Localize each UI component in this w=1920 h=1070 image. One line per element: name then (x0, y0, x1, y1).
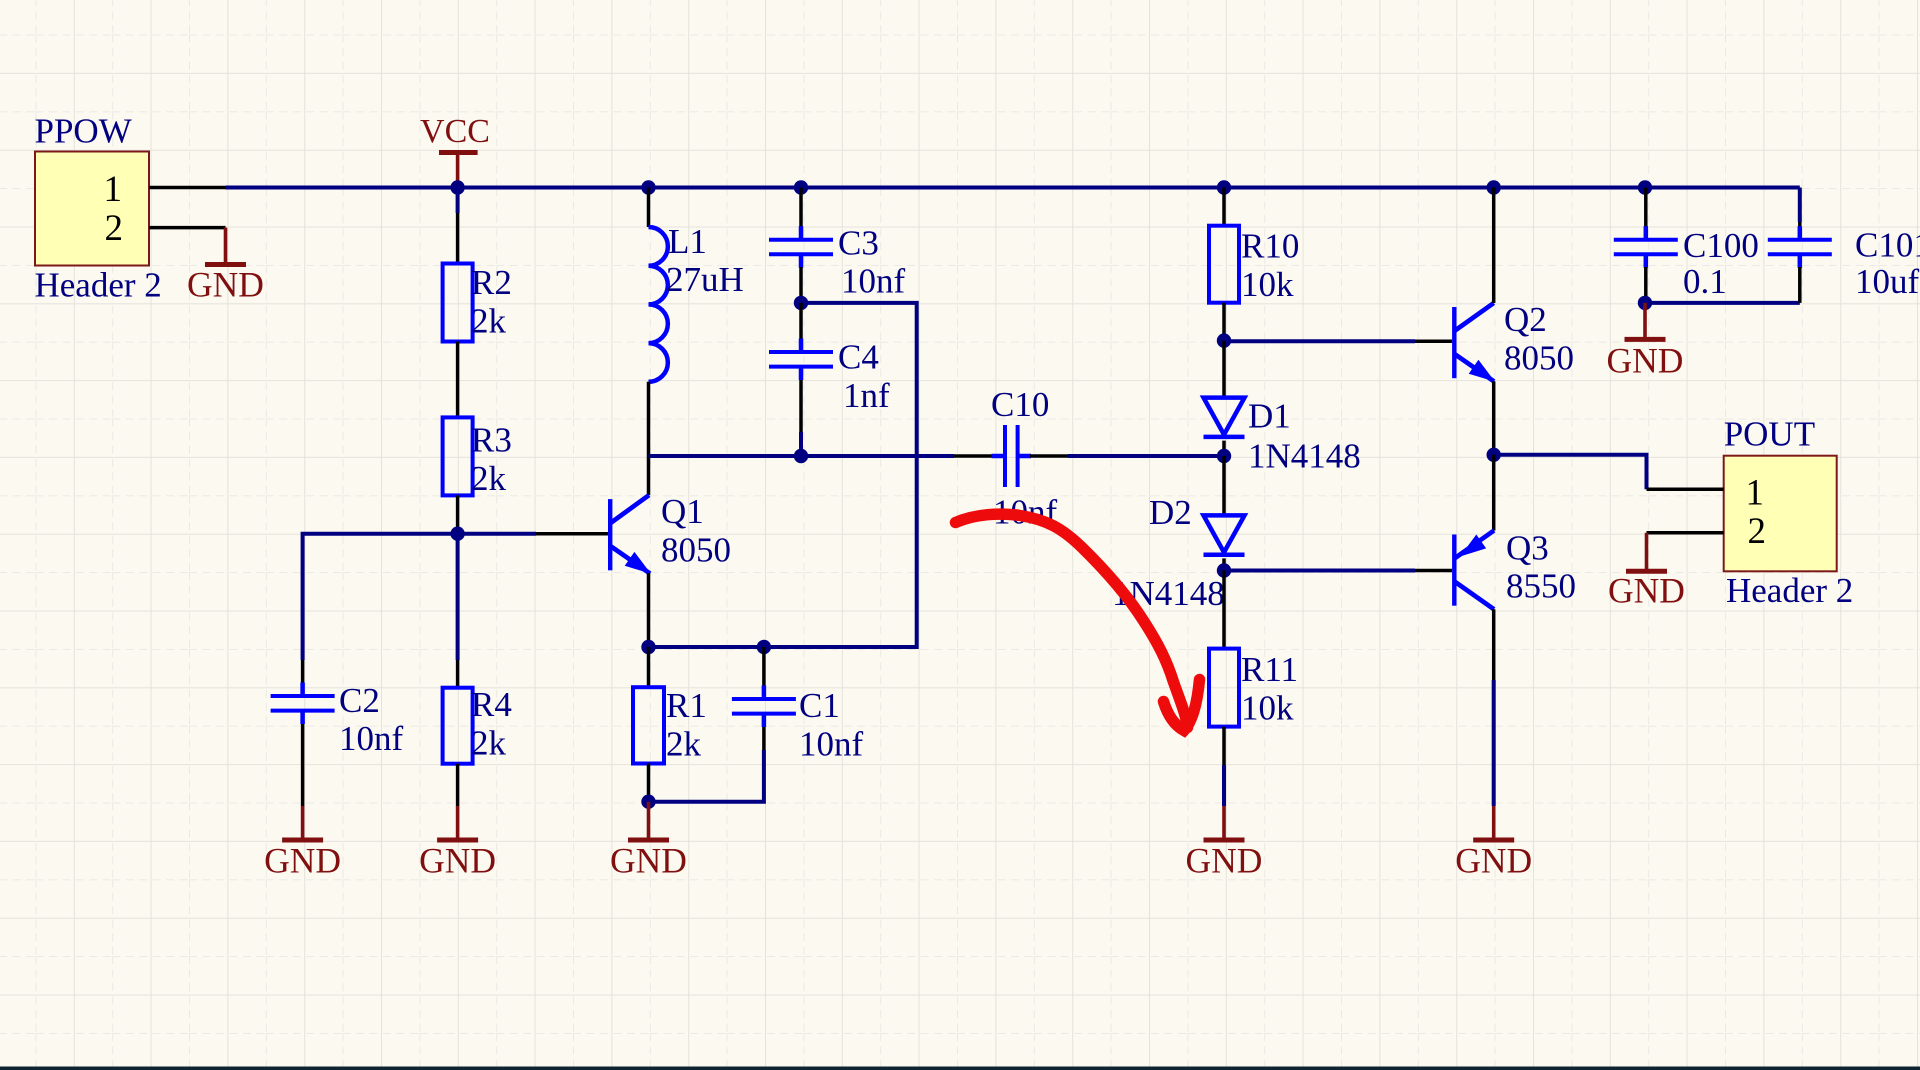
svg-text:2k: 2k (666, 724, 702, 763)
wire C1 top pin (762, 647, 766, 686)
svg-text:R1: R1 (666, 686, 707, 725)
wire VCC to L1 (647, 188, 651, 228)
resistor R10 (1209, 226, 1299, 304)
node A junction dot (450, 527, 464, 541)
sheet border bottom edge (0, 1067, 1920, 1070)
svg-text:GND: GND (1186, 841, 1263, 881)
wire node F to Q3 base (1224, 569, 1452, 573)
node H junction dot (1638, 296, 1652, 310)
capacitor C100 (1614, 226, 1759, 301)
svg-text:2k: 2k (471, 302, 507, 341)
svg-text:Q1: Q1 (661, 492, 704, 531)
wire C101 top drop (1798, 188, 1802, 223)
node G junction dot (1487, 448, 1501, 462)
svg-text:1: 1 (1746, 472, 1765, 513)
svg-text:2k: 2k (471, 723, 507, 762)
red freehand annotation arrow (956, 514, 1200, 730)
svg-text:POUT: POUT (1724, 414, 1815, 453)
svg-text:10k: 10k (1241, 265, 1294, 304)
wire R4 to ground (456, 764, 460, 806)
ground symbol below C100 (1607, 303, 1684, 381)
ground symbol below R4 (419, 806, 496, 881)
wire Q1 emitter down (647, 573, 651, 647)
svg-text:D2: D2 (1149, 493, 1192, 532)
svg-text:GND: GND (610, 841, 687, 881)
wire D1 cathode to node D (1222, 441, 1226, 456)
node Q1-emitter junction dot (641, 640, 655, 654)
svg-text:2: 2 (105, 208, 124, 249)
wire Q2 emitter to node G (1492, 381, 1496, 454)
svg-text:Q2: Q2 (1504, 300, 1547, 339)
wire node B to feedback column (649, 303, 917, 647)
svg-text:8050: 8050 (1504, 339, 1574, 378)
svg-text:R4: R4 (471, 685, 512, 724)
wire node H to C101 bottom (1645, 301, 1800, 305)
svg-text:C10: C10 (991, 385, 1049, 424)
wire VCC to R2 (456, 188, 460, 264)
capacitor C10 (991, 385, 1058, 532)
ground symbol below R1 (610, 802, 687, 881)
svg-text:C100: C100 (1683, 226, 1759, 265)
wire C10 to node D (1068, 454, 1224, 458)
wire R1 top pin (647, 647, 651, 687)
svg-text:1nf: 1nf (843, 376, 890, 415)
inductor L1 (649, 222, 744, 382)
svg-text:D1: D1 (1248, 397, 1291, 436)
svg-text:GND: GND (264, 841, 341, 881)
wire node D to D2 anode (1222, 456, 1226, 515)
PPOW pin 1 (104, 169, 226, 210)
wire R11 to ground (1222, 727, 1226, 806)
wire L1 to Q1 collector (647, 382, 651, 495)
svg-text:8550: 8550 (1506, 567, 1576, 606)
wire C1 bottom to node I (649, 727, 764, 802)
svg-text:1N4148: 1N4148 (1248, 436, 1361, 475)
ground symbol at POUT pin 2 (1608, 533, 1685, 611)
node VCC rail junctions (450, 180, 1652, 194)
diode D1 (1N4148) (1204, 397, 1361, 476)
POUT pin 2 (1647, 511, 1767, 552)
wire Q3 collector down (1492, 609, 1496, 806)
svg-text:10nf: 10nf (339, 719, 404, 758)
wire C4 to node C (799, 380, 803, 456)
node B junction dot (794, 296, 808, 310)
wire node E to D1 anode (1222, 341, 1226, 398)
connector POUT (Header 2) body (1724, 414, 1854, 610)
node C junction dot (794, 449, 808, 463)
wire C2 top pin (301, 660, 305, 683)
resistor R11 (1209, 649, 1298, 728)
wire node G to Q3 emitter (1492, 455, 1496, 531)
wire C10 right pin (1030, 454, 1068, 458)
svg-text:0.1: 0.1 (1683, 262, 1727, 301)
ground symbol below C2 (264, 806, 341, 881)
svg-text:VCC: VCC (420, 113, 490, 150)
svg-text:R3: R3 (471, 421, 512, 460)
wire VCC to C3 (799, 188, 803, 228)
wire node E to Q2 base (1224, 339, 1452, 343)
svg-text:10k: 10k (1241, 688, 1294, 727)
svg-text:C3: C3 (838, 224, 879, 263)
svg-text:1: 1 (104, 169, 123, 210)
svg-text:C1: C1 (799, 686, 840, 725)
transistor Q3 (PNP 8550) (1452, 528, 1576, 609)
wire R2 to R3 (456, 342, 460, 418)
node I junction dot (641, 795, 655, 809)
capacitor C1 (732, 686, 864, 764)
svg-text:C2: C2 (339, 681, 380, 720)
capacitor C2 (271, 681, 404, 758)
wire Q2 collector to VCC (1492, 188, 1496, 304)
ground symbol below R11 (1186, 806, 1263, 881)
svg-text:8050: 8050 (661, 530, 731, 569)
svg-text:GND: GND (187, 265, 264, 305)
wire node G to POUT pin 1 (1494, 455, 1647, 489)
transistor Q1 (NPN 8050) (608, 492, 731, 574)
wire VCC to C100 (1644, 188, 1648, 228)
svg-text:PPOW: PPOW (35, 111, 132, 150)
wire VCC to R10 (1222, 188, 1226, 226)
node F junction dot (1217, 563, 1231, 577)
svg-text:R11: R11 (1241, 650, 1298, 689)
capacitor C3 (769, 224, 906, 301)
svg-text:2: 2 (1748, 511, 1767, 552)
wire D2 cathode to node F (1222, 558, 1226, 570)
connector PPOW (Header 2) body (35, 111, 162, 304)
ground symbol below Q3 (1455, 806, 1532, 881)
svg-text:L1: L1 (668, 222, 707, 261)
svg-text:GND: GND (1455, 841, 1532, 881)
wire node A to R4 (456, 534, 460, 688)
diode D2 (1N4148) (1112, 493, 1245, 613)
ground symbol at PPOW pin 2 (187, 228, 264, 305)
wire Q1 emitter node to C1 top (649, 645, 764, 649)
svg-text:Header 2: Header 2 (35, 266, 162, 305)
wire R1 bottom to node I (647, 764, 651, 802)
wire C10 left pin (954, 454, 992, 458)
POUT pin 1 (1647, 472, 1765, 513)
wire node F to R11 (1222, 571, 1226, 649)
svg-text:10nf: 10nf (799, 724, 864, 763)
power symbol VCC (420, 113, 490, 188)
wire C3 to node B (799, 267, 803, 303)
wire C101 top pin (1798, 222, 1802, 227)
node D junction dot (1217, 449, 1231, 463)
resistor R4 (443, 685, 512, 764)
svg-text:R10: R10 (1241, 227, 1299, 266)
wire node B to C4 (799, 303, 803, 339)
PPOW pin 2 (105, 208, 226, 249)
wire C100 to node H (1644, 267, 1648, 303)
svg-text:C101: C101 (1855, 226, 1920, 265)
wire node A to C2 branch (303, 534, 458, 660)
wire R10 to node E (1222, 303, 1226, 341)
resistor R3 (443, 417, 512, 498)
wire C101 bottom pin (1798, 267, 1802, 303)
wire R3 to node A (456, 495, 460, 533)
node E junction dot (1217, 333, 1231, 347)
capacitor C4 (769, 338, 890, 416)
resistor R2 (443, 263, 512, 342)
wire C2 to ground (301, 724, 305, 806)
wire node C horizontal (649, 454, 955, 458)
svg-text:2k: 2k (471, 459, 507, 498)
svg-text:27uH: 27uH (666, 260, 744, 299)
wire node A to Q1 base (458, 532, 608, 536)
svg-text:Q3: Q3 (1506, 528, 1549, 567)
svg-text:10uf: 10uf (1855, 262, 1920, 301)
node C1 tap junction dot (757, 640, 771, 654)
resistor R1 (633, 686, 707, 764)
svg-text:GND: GND (1607, 340, 1684, 380)
svg-text:10nf: 10nf (841, 261, 906, 300)
capacitor C101 (1768, 226, 1920, 301)
svg-text:GND: GND (419, 841, 496, 881)
svg-text:R2: R2 (471, 263, 512, 302)
svg-text:C4: C4 (838, 338, 879, 377)
svg-text:GND: GND (1608, 571, 1685, 611)
transistor Q2 (NPN 8050) (1452, 300, 1574, 382)
wire VCC rail (top horizontal net) (226, 186, 1800, 190)
svg-text:Header 2: Header 2 (1726, 571, 1853, 610)
